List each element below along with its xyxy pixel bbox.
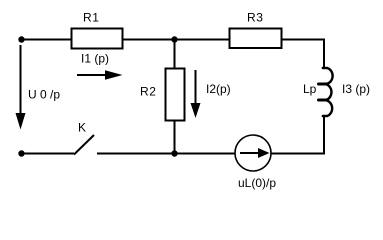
wire right vertical from inductor to bottom wire <box>323 116 325 155</box>
current source uL(0)/p circle <box>235 135 271 171</box>
svg-text:R1: R1 <box>83 11 100 25</box>
wire from R3 to top-right corner <box>282 39 326 41</box>
svg-text:I2(p): I2(p) <box>206 82 231 96</box>
svg-text:R3: R3 <box>247 11 264 25</box>
node A junction dot top <box>171 36 177 42</box>
current arrow I1 <box>77 70 123 79</box>
wire right vertical down to inductor <box>323 39 325 69</box>
switch K blade <box>74 135 94 155</box>
svg-text:I3 (p): I3 (p) <box>342 82 370 96</box>
current source arrow <box>240 148 270 158</box>
wire middle vertical from R2 to bottom junction <box>174 121 176 154</box>
svg-text:R2: R2 <box>140 85 157 99</box>
inductor Lp <box>319 68 333 116</box>
resistor R1 <box>72 29 123 49</box>
wire middle vertical from junction A to R2 <box>174 40 176 69</box>
svg-text:K: K <box>78 121 86 135</box>
wire from switch to current source <box>97 153 235 155</box>
resistor R3 <box>230 29 282 49</box>
svg-text:Lp: Lp <box>303 82 317 96</box>
wire from R1 to junction A and R3 <box>123 39 230 41</box>
node left-bottom terminal <box>18 150 24 156</box>
wire top-left from terminal to R1 <box>22 39 72 41</box>
svg-text:I1 (p): I1 (p) <box>81 52 109 66</box>
node left-top terminal <box>18 36 24 42</box>
svg-text:U 0 /p: U 0 /p <box>28 88 60 102</box>
wire bottom-left from terminal to switch <box>22 153 75 155</box>
node B junction dot bottom <box>171 150 177 156</box>
wire from current source to bottom-right corner <box>271 153 325 155</box>
voltage arrow U0/p <box>16 45 26 130</box>
resistor R2 <box>166 69 185 121</box>
svg-text:uL(0)/p: uL(0)/p <box>238 176 276 190</box>
current arrow I2 <box>191 70 201 118</box>
